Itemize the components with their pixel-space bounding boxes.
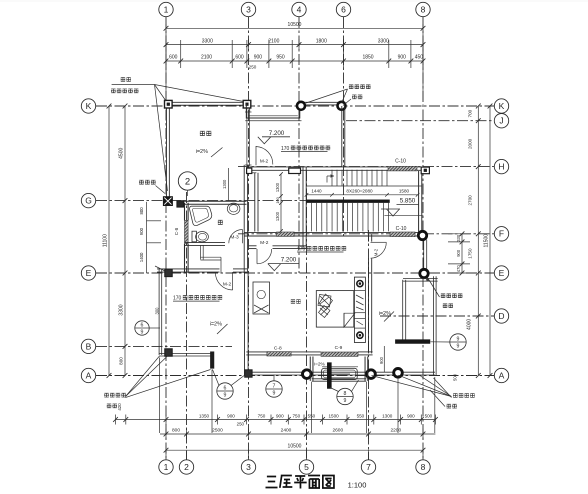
svg-text:C-8: C-8 [274, 345, 282, 351]
svg-text:K: K [86, 101, 92, 111]
svg-text:2500: 2500 [212, 428, 223, 434]
svg-text:J: J [499, 116, 503, 126]
wall axis5 F to bedroom [302, 236, 304, 249]
right balcony north wall [403, 278, 438, 280]
wall left terrace south [159, 352, 212, 354]
left dim chain outer 11100 [108, 106, 110, 376]
blanket fold [344, 313, 355, 327]
corridor pier 1 [247, 168, 252, 173]
lamp south [357, 332, 363, 338]
label flower box top [349, 85, 353, 89]
svg-text:7.200: 7.200 [269, 130, 285, 137]
svg-text:i=2%: i=2% [196, 149, 208, 155]
svg-text:11100: 11100 [103, 234, 109, 247]
right balcony dark bar [395, 340, 430, 344]
axis bubbles top [159, 2, 173, 16]
column axis1/E [165, 269, 172, 276]
svg-text:420: 420 [117, 403, 122, 411]
dim 900 line [383, 346, 385, 372]
svg-text:4000: 4000 [467, 319, 473, 330]
svg-text:8: 8 [421, 462, 426, 472]
label center column note [111, 89, 115, 93]
wall terrace right (axis3 K-H) with railing window [246, 104, 248, 112]
column left terrace SW [165, 349, 172, 356]
svg-text:1400: 1400 [139, 252, 144, 262]
bedroom north wall [249, 245, 257, 247]
pier bar bottom balcony [327, 363, 331, 389]
svg-text:450: 450 [415, 55, 424, 61]
svg-text:7: 7 [273, 383, 276, 389]
svg-text:C-10: C-10 [395, 159, 406, 165]
svg-text:800: 800 [172, 428, 180, 434]
svg-text:2200: 2200 [390, 428, 401, 434]
svg-text:6: 6 [224, 385, 227, 391]
svg-text:900: 900 [227, 413, 235, 418]
svg-text:600: 600 [169, 55, 178, 61]
wall corridor left (shaft) [254, 173, 256, 232]
svg-text:950: 950 [276, 55, 285, 61]
label WC [218, 220, 223, 224]
svg-text:M-2: M-2 [374, 248, 379, 256]
svg-text:B: B [86, 341, 92, 351]
detail bubble 8/9 bottom [337, 388, 353, 404]
label drain hole [139, 180, 144, 184]
bottom balcony planter [322, 368, 358, 379]
door M-3 bathroom [242, 230, 244, 244]
wash basin [227, 203, 240, 214]
svg-text:2400: 2400 [281, 428, 292, 434]
svg-text:9: 9 [224, 393, 227, 399]
label terrace [200, 131, 205, 135]
label flower box bottom-left [104, 393, 108, 397]
svg-text:1: 1 [164, 4, 169, 14]
wall axis8 stair east (H-F) [418, 171, 420, 232]
right dim chain outer 11500 [489, 106, 491, 376]
svg-text:4: 4 [297, 4, 302, 14]
svg-text:G: G [85, 196, 92, 206]
svg-text:500: 500 [425, 413, 433, 418]
svg-text:550: 550 [308, 413, 316, 418]
label flower box right [441, 294, 445, 298]
svg-text:900: 900 [139, 227, 144, 235]
svg-text:10500: 10500 [288, 444, 302, 450]
svg-text:1850: 1850 [362, 55, 373, 61]
pier bathroom NW [177, 201, 184, 207]
right dim chain small 330/900/470 [461, 234, 463, 273]
column terrace bottom-left (drain) [164, 197, 173, 206]
window C-10 upper [388, 166, 417, 171]
svg-text:1300: 1300 [222, 179, 227, 189]
bottom dim overall 10500 [166, 449, 423, 451]
column terrace top-right [243, 100, 251, 108]
svg-text:i=2%: i=2% [210, 322, 222, 328]
svg-text:6: 6 [141, 322, 144, 328]
svg-text:1580: 1580 [399, 189, 410, 194]
wall bathroom bottom [185, 242, 226, 244]
svg-text:800: 800 [139, 207, 144, 215]
svg-text:1440: 1440 [311, 189, 322, 194]
svg-text:900: 900 [398, 55, 407, 61]
wall axis3 H-E [243, 165, 245, 273]
svg-text:9: 9 [141, 330, 144, 336]
stair dim row 1440/8X260=2080/1580 [307, 194, 418, 196]
svg-text:900: 900 [456, 249, 461, 257]
round column axis4/K [297, 102, 305, 110]
svg-text:3300: 3300 [119, 304, 125, 315]
wall F (stair bottom) [244, 232, 422, 234]
svg-text:M-2: M-2 [223, 282, 232, 288]
bottom balcony walls [309, 357, 311, 381]
door M-2 bedroom east [371, 241, 387, 243]
svg-text:3300: 3300 [378, 38, 389, 44]
svg-text:M-3: M-3 [230, 234, 239, 240]
stair up arrow [326, 176, 328, 183]
window C-8 bathroom [185, 220, 189, 243]
wall axis7 (bedroom east) [368, 234, 370, 241]
svg-text:9: 9 [457, 344, 460, 350]
wall E left (terrace top edge) [157, 268, 220, 270]
svg-text:8: 8 [344, 391, 347, 397]
wall G bathroom top [177, 200, 247, 202]
svg-text:K: K [499, 101, 505, 111]
toilet [192, 231, 196, 242]
stair flight border [307, 185, 422, 187]
axis grid lines [165, 17, 167, 460]
window C-10 lower [390, 232, 415, 237]
svg-text:900: 900 [407, 413, 415, 418]
svg-text:900: 900 [254, 55, 263, 61]
wall terrace top (K axis1-axis3) [169, 101, 246, 103]
svg-text:6: 6 [341, 4, 346, 14]
wall axis6 K-H [341, 106, 343, 167]
right balcony: axis8 wall F-E [423, 240, 425, 269]
svg-text:700: 700 [468, 109, 473, 117]
planter box top (axis3-axis4) [246, 104, 299, 118]
door M-2 left terrace [232, 272, 234, 290]
svg-text:5: 5 [304, 462, 309, 472]
column axis3/A [245, 370, 252, 377]
svg-text:1300: 1300 [275, 211, 280, 221]
door M-2 bedroom north [256, 249, 258, 264]
svg-text:2700: 2700 [468, 195, 473, 206]
right balcony east wall [433, 276, 435, 375]
svg-text:F: F [499, 229, 504, 239]
detail bubble 6/9 bottom [217, 383, 233, 399]
detail bubble 6/9 left [135, 321, 149, 335]
round column axis6/K [338, 102, 346, 110]
svg-text:3: 3 [246, 462, 251, 472]
svg-text:900: 900 [276, 413, 284, 418]
svg-text:750: 750 [258, 413, 266, 418]
svg-text:7.200: 7.200 [281, 256, 297, 263]
svg-text:550: 550 [357, 413, 365, 418]
door M-2 upper (to terrace) [255, 146, 257, 165]
top dimension chain overall 10500 [166, 27, 423, 29]
svg-text:A: A [86, 370, 92, 380]
round column axis5/A [303, 370, 312, 379]
window on F left [277, 232, 295, 236]
window C-9 south [321, 352, 358, 356]
svg-text:170: 170 [297, 246, 306, 252]
svg-text:2100: 2100 [201, 55, 212, 61]
bedroom south wall with windows [246, 351, 267, 353]
svg-text:5.850: 5.850 [400, 198, 416, 205]
detail bubble 7/9 bottom [266, 381, 282, 397]
svg-text:800: 800 [119, 357, 124, 365]
svg-text:2000: 2000 [468, 138, 473, 149]
title: san ceng ping mian tu (Third Floor Plan) [266, 476, 334, 489]
wall K axis4-axis6 [301, 101, 342, 103]
dresser west wall [253, 282, 270, 314]
lamp north [357, 281, 363, 287]
svg-text:1: 1 [164, 462, 169, 472]
svg-text:330: 330 [456, 234, 461, 242]
svg-text:1500: 1500 [328, 413, 339, 418]
svg-text:600: 600 [235, 55, 244, 61]
round column mid/A [394, 369, 403, 378]
detail bubble 9/9 right [450, 334, 466, 350]
svg-text:H: H [498, 162, 504, 172]
axis bubbles left [81, 99, 95, 113]
svg-text:250: 250 [237, 422, 245, 427]
svg-text:170: 170 [281, 146, 290, 152]
svg-text:250: 250 [249, 64, 257, 69]
svg-text:2: 2 [184, 462, 189, 472]
svg-text:M-2: M-2 [260, 159, 269, 165]
wall H (stair top) [246, 166, 422, 168]
svg-text:1800: 1800 [316, 38, 327, 44]
svg-text:D: D [498, 311, 504, 321]
svg-text:3: 3 [246, 4, 251, 14]
bottom dim row small segments [116, 419, 436, 421]
svg-text:10500: 10500 [288, 22, 302, 28]
column terrace top-left [165, 100, 173, 108]
svg-text:E: E [499, 268, 505, 278]
stair mid landing bar [307, 200, 390, 203]
svg-text:9: 9 [457, 336, 460, 342]
svg-text:3300: 3300 [202, 38, 213, 44]
bed [316, 291, 354, 328]
bottom extension lines [159, 358, 161, 434]
wall axis2 bathroom west G-E [184, 203, 186, 221]
svg-text:9: 9 [273, 391, 276, 397]
svg-text:1750: 1750 [468, 248, 473, 259]
pillows [319, 294, 333, 310]
top dimension row 3300/2100/1800/3300 [166, 44, 423, 46]
svg-text:100: 100 [275, 196, 280, 203]
svg-text:C-8: C-8 [174, 227, 179, 235]
svg-text:1350: 1350 [199, 413, 210, 418]
leaders from zhuanzhu [155, 85, 167, 102]
svg-text:8X260=2080: 8X260=2080 [346, 189, 373, 194]
svg-text:C-9: C-9 [335, 345, 343, 351]
column axis8/H [421, 167, 429, 174]
axis bubbles right [494, 99, 508, 113]
bottom dim row 800/2500/2400/2600/2200 [160, 433, 435, 435]
svg-text:M-2: M-2 [260, 240, 269, 246]
window C-8 south [267, 352, 291, 356]
label zhuanzhu top-left [121, 77, 125, 81]
round column axis7/A [367, 370, 376, 379]
corridor pier 2 [289, 168, 301, 173]
svg-text:8: 8 [421, 4, 426, 14]
wall A (south face) [246, 371, 435, 373]
svg-text:500: 500 [453, 373, 458, 381]
right dim chain 700/2000/2700/1750/4000 [477, 106, 479, 376]
svg-text:470: 470 [456, 265, 461, 273]
svg-text:4500: 4500 [119, 148, 125, 159]
svg-text:900: 900 [379, 356, 384, 364]
svg-text:750: 750 [292, 413, 300, 418]
corridor dim chain 1300/100/1300 [280, 174, 282, 231]
svg-text:C-10: C-10 [396, 226, 407, 232]
terrace right dim 1300 [228, 168, 230, 201]
stair upper flight treads [331, 170, 333, 186]
ring column axis8/E [420, 269, 428, 277]
svg-text:2100: 2100 [268, 38, 279, 44]
label flower box bottom-right [453, 394, 457, 398]
svg-text:9: 9 [344, 398, 347, 404]
left dim chain inner [124, 106, 126, 376]
axis bubble 2 mid [178, 172, 196, 190]
right balcony divider wall [402, 280, 404, 342]
svg-text:11500: 11500 [484, 234, 490, 248]
svg-text:1300: 1300 [275, 182, 280, 192]
left window dim chain 800/900/1400 [146, 202, 148, 273]
svg-text:2600: 2600 [332, 428, 343, 434]
svg-text:1:100: 1:100 [348, 481, 367, 490]
label master bedroom [291, 300, 295, 304]
bathtub [190, 206, 212, 225]
svg-text:1300: 1300 [382, 413, 393, 418]
pier bar left terrace [210, 352, 214, 369]
strip squiggles [356, 295, 364, 299]
svg-text:A: A [499, 370, 505, 380]
svg-text:2: 2 [185, 177, 190, 188]
top dimension row 600/2100/600/900/950 .. 1850/900/450 [166, 60, 423, 62]
wall terrace left (axis1 K-G) [165, 104, 167, 198]
svg-text:170: 170 [173, 296, 182, 302]
wall stair left (axis5) [302, 167, 304, 236]
wall left terrace west [158, 269, 160, 355]
stair lower flight treads [311, 203, 313, 232]
svg-text:E: E [86, 268, 92, 278]
step lines below bathroom [200, 246, 202, 260]
scan artifact top band [0, 0, 588, 2]
axis bubbles bottom [159, 460, 173, 474]
bedside strip east [354, 277, 365, 342]
svg-text:7: 7 [366, 462, 371, 472]
ring column axis8/F [418, 231, 426, 239]
wall axis3 E-A (bedroom west) [244, 273, 246, 376]
